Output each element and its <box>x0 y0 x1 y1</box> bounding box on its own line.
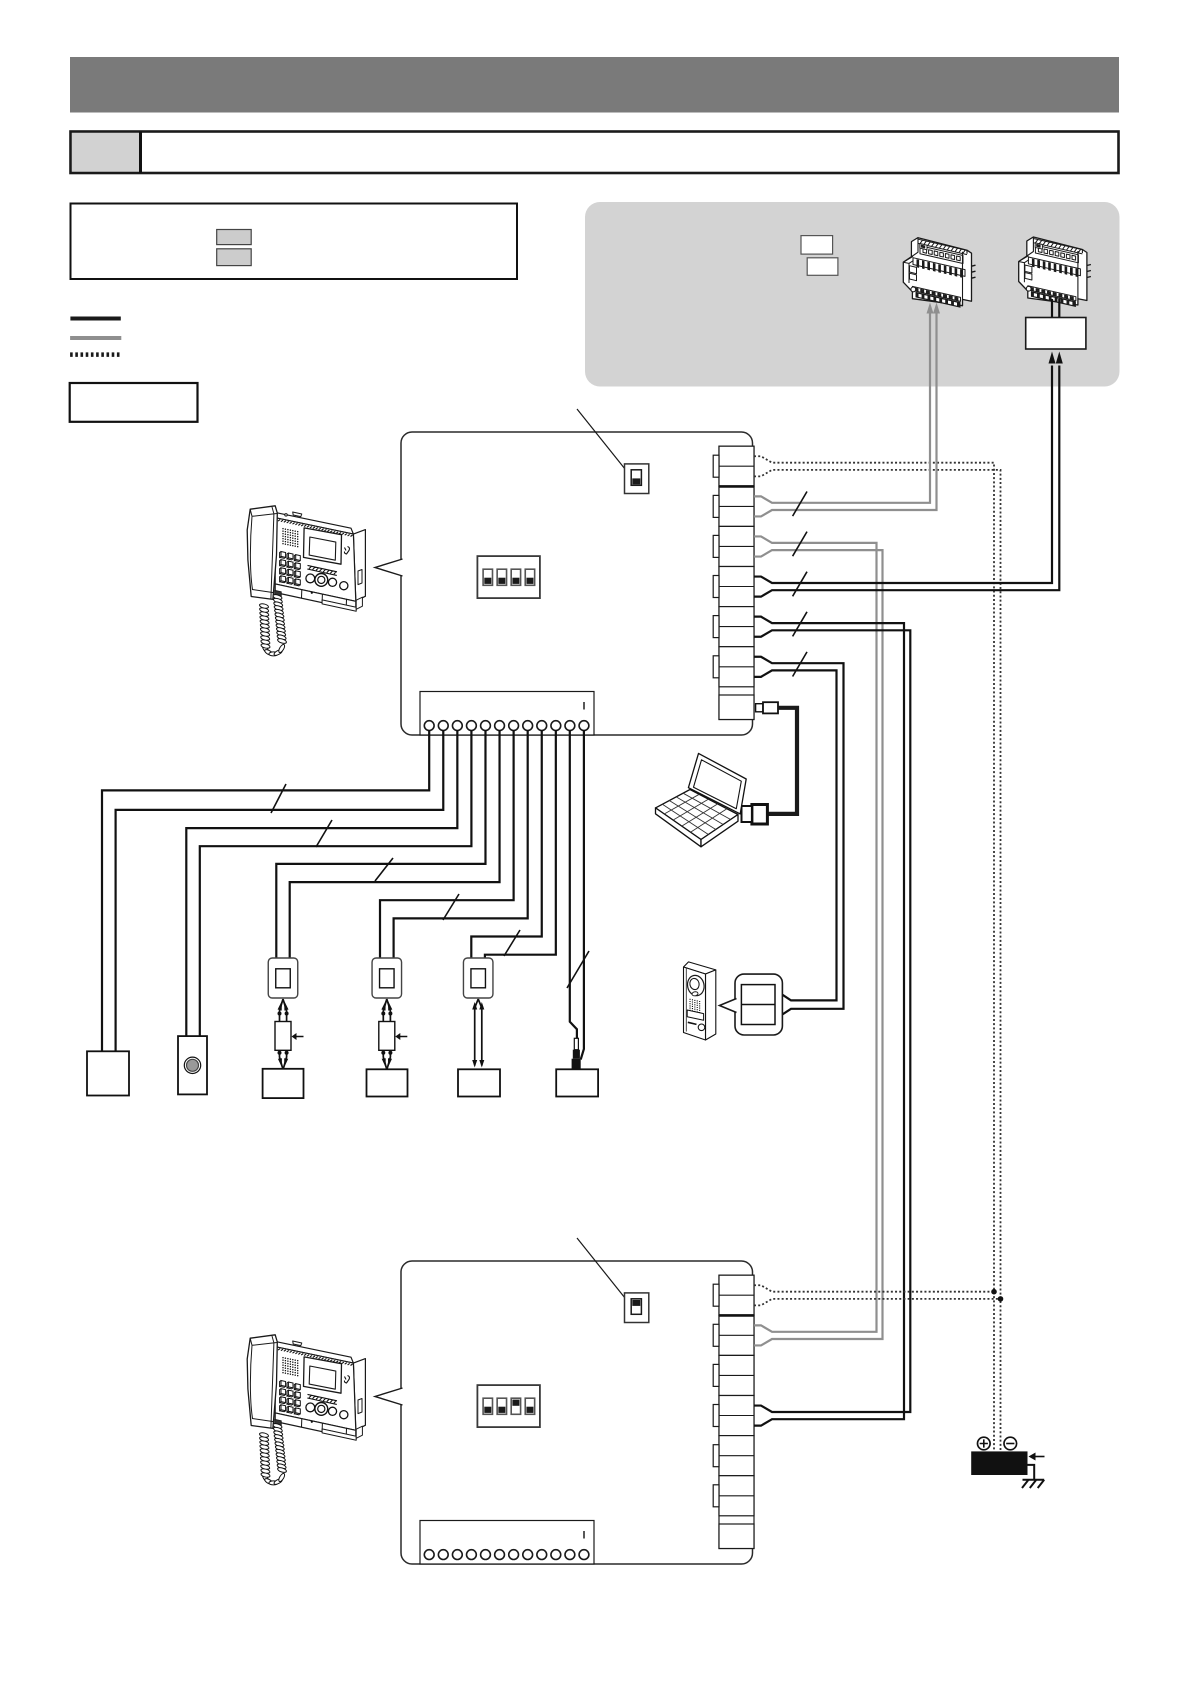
bubble tail <box>720 999 737 1013</box>
wire: terminal 10 to device <box>485 730 556 958</box>
callout notch to master station <box>375 1388 403 1405</box>
program switch <box>625 464 649 494</box>
wire: terminal 8 to device <box>394 730 528 958</box>
wire: terminal 9 to device <box>471 730 541 958</box>
inline connector <box>275 1022 291 1051</box>
coiled handset cord <box>273 594 283 601</box>
master station body <box>353 530 365 602</box>
wire break slash bottom 2 <box>316 820 332 847</box>
legend note box <box>71 204 518 280</box>
terminal pair 3 <box>719 1355 754 1395</box>
wire break slash pair 6 <box>793 652 807 677</box>
wire: terminal 11 to pin jack <box>570 730 577 1039</box>
junction dot A <box>991 1289 997 1295</box>
pointer arrow <box>295 1036 304 1038</box>
bottom button row <box>275 1413 356 1439</box>
USB plug at unit <box>756 704 763 712</box>
wire: terminal 1 to device <box>102 730 429 1051</box>
wire break slash pair 5 <box>793 612 807 637</box>
legend line solid black <box>70 317 120 321</box>
wire: power bus dotted A <box>754 456 994 1451</box>
terminal pair 6 <box>719 1476 754 1516</box>
bottom terminal strip <box>420 1521 594 1565</box>
distribution box under power supply <box>1026 318 1086 350</box>
terminal screws <box>424 1550 434 1560</box>
power supply unit (DIN module) <box>1019 237 1087 305</box>
plus terminal symbol <box>978 1437 991 1450</box>
wire: terminal 7 to device <box>380 730 514 958</box>
wire: terminal 3 to device <box>186 730 457 1036</box>
wire break slash bottom 4 <box>443 894 459 920</box>
link wires with arrows <box>280 999 287 1022</box>
wire: terminal 12 to pin jack <box>581 730 584 1060</box>
ground wire <box>1028 1465 1035 1479</box>
equipment panel background <box>585 202 1120 387</box>
leader line to program switch <box>577 409 633 479</box>
leader line to program switch <box>577 1238 633 1308</box>
bottom button row <box>275 584 356 610</box>
terminal block in bubble <box>741 985 775 1025</box>
wire break slash pair 4 <box>793 572 807 597</box>
panel label box lower <box>807 258 838 276</box>
control unit enclosure <box>401 1261 753 1564</box>
section header bar <box>71 132 1119 174</box>
wire break slash pair 2 <box>793 492 807 517</box>
DIP switch block <box>477 1385 540 1427</box>
terminal pair 4 <box>719 1396 754 1436</box>
battery pointer arrow <box>1032 1456 1045 1458</box>
wire: terminal 2 to device <box>116 730 444 1051</box>
junction dot B <box>998 1296 1004 1302</box>
wire: unit2 power bus dotted A <box>754 1285 994 1291</box>
backup battery <box>971 1451 1027 1475</box>
terminal screws <box>424 721 434 731</box>
wire: terminal 6 to device <box>290 730 500 958</box>
wire break slash bottom 3 <box>375 858 393 881</box>
callout notch to master station <box>375 559 403 576</box>
video door station <box>684 962 716 974</box>
wire: power supply to distribution box <box>1051 299 1053 319</box>
control unit enclosure <box>401 432 753 735</box>
laptop (PC) <box>688 753 746 814</box>
wire: unit link gray B <box>754 550 883 1345</box>
USB cable <box>768 708 797 814</box>
link wires double arrows <box>475 999 482 1066</box>
program switch <box>625 1293 649 1323</box>
wire: unit2 power bus dotted B <box>754 1299 1001 1305</box>
device box 1 <box>263 1069 304 1098</box>
wire break slash pair 3 <box>793 532 807 557</box>
coiled handset cord <box>273 1423 283 1430</box>
wire: unit link gray A <box>754 536 877 1331</box>
wire: power line black A <box>754 366 1052 584</box>
external device box (speaker) <box>87 1051 129 1095</box>
legend swatch upper <box>217 230 252 245</box>
wire: door station line A <box>754 657 844 1014</box>
wire: door station line B <box>754 670 837 1000</box>
terminal adaptor bubble <box>735 974 782 1035</box>
connection adaptor <box>372 958 402 998</box>
arrowheads into distribution box <box>1049 352 1056 364</box>
arrowheads into bus control unit <box>927 303 934 314</box>
call button device <box>178 1036 207 1094</box>
master station body <box>353 1359 365 1431</box>
service connector port <box>719 695 754 720</box>
link wires with arrows <box>383 999 390 1022</box>
USB plug at laptop <box>752 805 768 825</box>
device box 2 <box>367 1069 408 1096</box>
wire: power bus dotted B <box>754 470 1001 1452</box>
DIP switch block <box>477 556 540 598</box>
pointer arrow <box>399 1036 408 1038</box>
legend swatch lower <box>217 249 252 266</box>
legend line dotted <box>70 352 120 357</box>
page title banner <box>70 57 1119 113</box>
minus terminal symbol <box>1004 1437 1017 1450</box>
terminal pair 5 <box>719 607 754 647</box>
wire: terminal 4 to device <box>200 730 472 1036</box>
terminal pair 4 <box>719 567 754 607</box>
terminal pair 1 <box>719 446 754 486</box>
right terminal block column <box>719 1275 754 1548</box>
device box 4 <box>556 1069 598 1096</box>
earth ground symbol <box>1022 1480 1044 1488</box>
wire: power line black B <box>754 366 1059 597</box>
wire: unit link black A <box>754 617 904 1426</box>
service connector port <box>719 1524 754 1549</box>
wire break slash bottom 6 <box>567 951 589 988</box>
terminal pair 2 <box>719 486 754 526</box>
wire: bus line gray A <box>754 313 930 503</box>
handset <box>247 506 277 600</box>
terminal pair 6 <box>719 647 754 687</box>
note box <box>70 383 198 422</box>
handset <box>247 1335 277 1429</box>
inline connector <box>379 1022 395 1051</box>
terminal pair 5 <box>719 1436 754 1476</box>
wire: unit link black B <box>754 630 910 1412</box>
bus control unit (DIN module) <box>903 238 971 306</box>
wire break slash bottom 1 <box>271 784 286 813</box>
terminal pair 1 <box>719 1275 754 1315</box>
connection adaptor <box>268 958 298 998</box>
wire: bus line gray B <box>754 313 937 516</box>
bottom terminal strip <box>420 692 594 736</box>
right terminal block column <box>719 446 754 719</box>
legend line solid gray <box>70 336 121 340</box>
wire: terminal 5 to device <box>276 730 485 958</box>
pin jack plug <box>574 1038 578 1049</box>
wire break slash bottom 5 <box>504 930 520 956</box>
terminal pair 2 <box>719 1315 754 1355</box>
connection adaptor <box>463 958 493 998</box>
panel label box upper <box>801 236 833 255</box>
terminal pair 3 <box>719 526 754 566</box>
device box 3 <box>458 1069 500 1096</box>
